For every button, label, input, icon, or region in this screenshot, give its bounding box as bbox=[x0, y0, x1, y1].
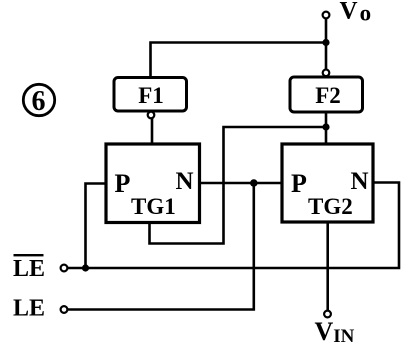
svg-text:LE: LE bbox=[13, 296, 45, 322]
node junction LE tap bbox=[250, 179, 258, 187]
wire Vo vertical to F2 input bubble bbox=[325, 19, 328, 70]
wire F2 output to TG2 top bbox=[325, 112, 328, 145]
wire F1 output to TG1 top bbox=[151, 118, 154, 145]
node junction F2 output bbox=[322, 123, 329, 130]
node junction Vo/feedback bbox=[322, 39, 329, 46]
svg-text:N: N bbox=[351, 168, 369, 195]
wire TG2 bottom to VIN terminal bbox=[326, 222, 329, 311]
svg-text:LE: LE bbox=[13, 256, 45, 282]
svg-text:F2: F2 bbox=[315, 83, 341, 108]
svg-text:P: P bbox=[291, 169, 307, 198]
terminal Vo bbox=[323, 12, 330, 19]
wire TG1 N-gate to TG2 P-gate bbox=[200, 182, 283, 185]
terminal LEbar bbox=[61, 265, 68, 272]
node junction on LEbar rail bbox=[82, 264, 89, 271]
wire LEbar rail to TG2 N-gate bbox=[68, 183, 400, 269]
svg-text:N: N bbox=[176, 168, 194, 195]
transmission gate TG1 bbox=[106, 144, 200, 223]
wire LE rail up to N/P node bbox=[68, 183, 254, 310]
svg-text:TG1: TG1 bbox=[131, 194, 176, 219]
wire F2 output feedback to TG1 bottom bbox=[150, 127, 327, 244]
transmission gate TG2 bbox=[282, 144, 373, 222]
bubble F2 input bbox=[323, 70, 330, 77]
svg-text:Vo: Vo bbox=[340, 0, 372, 26]
figure number 6 bbox=[23, 84, 54, 117]
svg-text:TG2: TG2 bbox=[308, 194, 353, 219]
svg-text:6: 6 bbox=[32, 86, 46, 117]
wire top feedback to F1 input bbox=[151, 43, 327, 78]
bubble F1 output bbox=[148, 112, 155, 119]
inverter F1 bbox=[114, 78, 187, 112]
wire TG1 P-gate to LEbar rail bbox=[86, 184, 107, 269]
terminal VIN bbox=[324, 311, 331, 318]
svg-text:P: P bbox=[115, 169, 131, 198]
inverter F2 bbox=[290, 77, 363, 112]
terminal LE bbox=[61, 306, 68, 313]
svg-text:F1: F1 bbox=[138, 83, 164, 108]
label LEbar bbox=[13, 254, 45, 282]
